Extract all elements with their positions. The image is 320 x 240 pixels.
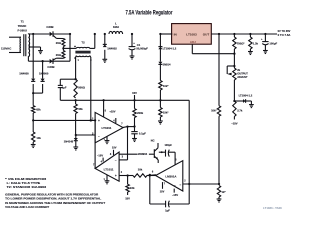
label C1 — [133, 42, 148, 50]
svg-text:8: 8 — [175, 158, 177, 161]
wire U4 output — [147, 175, 156, 177]
transformer T2 bottom winding — [76, 56, 89, 57]
svg-text:+15V: +15V — [109, 110, 115, 114]
op-amp U3 LT1011 — [95, 152, 119, 181]
label 1N914 — [163, 62, 171, 66]
wire feedback riser — [188, 100, 190, 184]
resistor 15k bias — [126, 176, 129, 196]
label 100pF — [164, 143, 172, 147]
label 1uF snubber — [62, 85, 67, 89]
wire U2 minus input — [76, 134, 95, 136]
ground 1N4148 — [73, 147, 78, 150]
ground LT1004 right — [249, 101, 254, 108]
node junction top tap — [32, 33, 34, 35]
label U4 -15V — [172, 193, 178, 197]
node T2 rail junction — [94, 33, 96, 35]
svg-text:−: − — [115, 159, 117, 163]
svg-text:0.1μF: 0.1μF — [139, 131, 146, 135]
label T2 pin 1 — [78, 59, 80, 62]
resistor 10k divider — [32, 132, 35, 142]
svg-text:LT1011: LT1011 — [102, 126, 112, 130]
transformer T2 label — [81, 40, 85, 44]
label NC — [151, 139, 155, 143]
label 1N4002 — [107, 47, 117, 51]
label 10k star — [163, 84, 169, 88]
svg-text:100μF: 100μF — [269, 42, 277, 46]
label U2 pin 1 — [103, 138, 105, 141]
label 62k — [36, 108, 41, 112]
capacitor C1 — [129, 34, 136, 56]
node 115VAC label — [1, 47, 11, 51]
wire divider to comparator — [33, 119, 95, 121]
label 10k summing — [138, 167, 143, 171]
transistor Q1 2N3904 — [154, 143, 158, 163]
wire secondary bottom tap — [28, 56, 42, 61]
svg-text:−: − — [98, 134, 100, 138]
ground 1k sense — [217, 197, 222, 202]
label 1.3k — [253, 42, 259, 46]
node chain junction — [159, 33, 161, 35]
wire U3 pin1 ground — [105, 175, 110, 184]
ground freewheel — [102, 59, 107, 62]
potentiometer 2k — [233, 66, 236, 101]
capacitor 1uF integrator — [150, 176, 189, 208]
diode 1N4000 left label — [19, 71, 29, 75]
wire ramp to U3 minus — [119, 127, 127, 160]
label 15k pullup — [78, 107, 83, 111]
node sync junction — [32, 92, 43, 94]
wire ADJ pin — [192, 44, 234, 53]
transformer T2 core — [75, 51, 90, 54]
svg-text:0 TO 7.5A: 0 TO 7.5A — [278, 33, 291, 37]
capacitor 0.1uF — [131, 127, 137, 139]
label LT1004-1.2 right — [239, 93, 253, 97]
label U3 pin 7 — [93, 163, 95, 166]
svg-text:OUT: OUT — [203, 32, 210, 36]
node reference junction — [233, 100, 235, 102]
wire T2 bottom right drop — [90, 56, 91, 121]
svg-text:1N4148: 1N4148 — [64, 139, 74, 143]
svg-text:1N4000: 1N4000 — [19, 71, 29, 75]
svg-text:6: 6 — [152, 171, 154, 174]
label 15V bias — [125, 196, 130, 200]
svg-text:15k: 15k — [78, 107, 83, 111]
wire U4 pin7 stub — [162, 182, 164, 189]
node C1 junction — [131, 33, 133, 35]
wire T2 top right to rail — [90, 34, 95, 48]
node out junction 3 — [249, 33, 251, 35]
op-amp U4 LM301A — [156, 161, 183, 191]
svg-text:L: DALE TO-5 TYPE: L: DALE TO-5 TYPE — [7, 181, 41, 185]
svg-text:8: 8 — [105, 109, 107, 112]
resistor 10k summing — [128, 174, 156, 177]
svg-text:IS MAINTAINED ACROSS THE LT108: IS MAINTAINED ACROSS THE LT1083 INDEPEND… — [5, 201, 105, 205]
svg-text:7.5A Variable Regulator: 7.5A Variable Regulator — [126, 10, 173, 17]
label 10k divider — [36, 136, 41, 140]
node U2 pin8 junction — [102, 99, 104, 101]
node junction bottom tap — [41, 60, 43, 62]
svg-text:TO LOWER POWER DISSIPATION. AB: TO LOWER POWER DISSIPATION. ABOUT 1.7V D… — [5, 197, 101, 201]
node ADJ junction — [233, 53, 235, 55]
node out junction 2 — [233, 33, 235, 35]
diode 1N4000 right label — [39, 71, 49, 75]
svg-text:10k*: 10k* — [211, 109, 217, 113]
svg-text:1N4000: 1N4000 — [39, 71, 49, 75]
SCR C20B top label — [46, 25, 53, 29]
svg-text:LT1004-1.2: LT1004-1.2 — [239, 93, 253, 97]
transformer T1 primary — [19, 37, 22, 52]
wire U3 output riser — [94, 120, 96, 168]
svg-text:0V TO 35V: 0V TO 35V — [278, 29, 291, 33]
svg-text:8: 8 — [110, 153, 112, 156]
svg-text:4: 4 — [113, 120, 115, 123]
label 100uF — [261, 38, 278, 46]
label U4 pin numbers — [152, 158, 186, 188]
svg-text:15V: 15V — [132, 91, 137, 95]
label LT1083 pins — [174, 32, 210, 44]
label +15V U2 — [109, 110, 115, 114]
svg-text:+: + — [115, 174, 117, 178]
wire out sense drop — [218, 34, 220, 106]
label U2 pin numbers — [92, 109, 115, 135]
wire 15V stub — [134, 95, 136, 100]
svg-text:ADJUST: ADJUST — [237, 75, 248, 79]
transformer T1 secondary — [28, 34, 29, 57]
label 0.1uF — [139, 131, 146, 135]
svg-text:62k: 62k — [36, 108, 41, 112]
svg-text:C20B: C20B — [46, 25, 53, 29]
wire U2 pin4 stub — [115, 118, 117, 123]
diode 1N4000 left — [31, 79, 35, 94]
node summing node — [188, 183, 190, 185]
resistor 500ohm — [74, 79, 77, 98]
svg-text:LT1011: LT1011 — [104, 167, 114, 171]
label 20ohm top — [56, 41, 62, 45]
node U3 output junction — [90, 119, 97, 121]
svg-text:10k*: 10k* — [163, 84, 169, 88]
node cap branch top — [60, 78, 76, 80]
svg-text:1k*: 1k* — [222, 190, 227, 194]
resistor 10k star — [159, 64, 162, 100]
svg-text:−15V: −15V — [97, 153, 103, 157]
diode 1N4002 freewheel — [103, 34, 107, 59]
svg-text:15k*: 15k* — [163, 110, 169, 114]
diode LT1004-1.2 right — [234, 99, 251, 103]
svg-text:T1: T1 — [21, 19, 25, 23]
svg-text:750Ω*: 750Ω* — [237, 42, 246, 46]
node Q1 junction — [161, 151, 163, 153]
resistor 750ohm — [233, 34, 236, 54]
diode LT1004-1.2 left — [158, 34, 162, 62]
wire U2 output — [123, 126, 134, 129]
ground 0.1uF — [132, 139, 137, 142]
wire SCR2 anode riser — [42, 61, 44, 78]
wire 115VAC top stub — [9, 36, 21, 38]
svg-text:T2: STANCOR 112-0903: T2: STANCOR 112-0903 — [7, 185, 47, 189]
inductor L label — [113, 22, 119, 29]
svg-text:T2: T2 — [81, 40, 85, 44]
svg-text:200k: 200k — [137, 111, 143, 115]
wire top-end drop — [32, 34, 34, 79]
svg-text:* 1% FILM RESISTOR: * 1% FILM RESISTOR — [5, 177, 46, 181]
resistor 200k — [133, 100, 136, 126]
label U3 pin 1 — [103, 178, 105, 181]
wire rail into IN — [160, 33, 172, 35]
node 15V junction — [133, 99, 135, 101]
ground 10k — [31, 142, 36, 148]
transformer T2 top winding — [76, 47, 89, 48]
svg-text:10k: 10k — [138, 167, 143, 171]
label 1k sense — [222, 190, 227, 194]
wire secondary center tap — [28, 47, 40, 51]
svg-text:500Ω: 500Ω — [78, 85, 85, 89]
svg-text:+: + — [98, 119, 100, 123]
node U3 plus junction — [126, 174, 128, 176]
svg-text:1N914: 1N914 — [163, 62, 171, 66]
node T2 drive junction — [90, 119, 92, 121]
svg-text:1.3k: 1.3k — [253, 42, 259, 46]
svg-text:50,000μF: 50,000μF — [136, 47, 148, 51]
resistor 20ohm bottom — [56, 51, 65, 59]
wire Q1 base — [119, 153, 154, 155]
svg-text:1N4002: 1N4002 — [107, 47, 117, 51]
node pot top junction — [233, 65, 235, 67]
svg-text:1μF: 1μF — [165, 208, 170, 212]
inductor L — [109, 31, 123, 34]
pot wiper — [227, 66, 234, 75]
svg-text:+: + — [133, 42, 135, 45]
resistor 1k sense — [217, 186, 220, 198]
svg-text:GENERAL PURPOSE REGULATOR WITH: GENERAL PURPOSE REGULATOR WITH SCR PRERE… — [5, 192, 98, 196]
svg-text:NC: NC — [151, 139, 155, 143]
node U2 output junction — [126, 125, 128, 127]
op-amp U2 LT1011 — [95, 112, 123, 142]
wire ADJ node to pot — [233, 54, 235, 66]
node out junction 4 — [264, 33, 266, 35]
note resistors — [5, 177, 47, 189]
node freewheel junction — [104, 33, 106, 35]
SCR C20B top — [50, 31, 57, 38]
label 20ohm bottom — [56, 53, 62, 57]
node ramp junction — [133, 125, 135, 127]
svg-text:−: − — [180, 183, 182, 187]
svg-text:1MH: 1MH — [113, 25, 119, 29]
label 1N4148 — [64, 139, 74, 143]
node cap branch bottom — [74, 99, 76, 101]
node clamp junction — [75, 134, 77, 136]
label -15V U3 — [97, 153, 103, 157]
svg-text:−15V: −15V — [231, 121, 238, 125]
transformer T1 label — [18, 19, 27, 32]
ground center tap — [38, 51, 43, 54]
svg-text:1μF: 1μF — [62, 85, 67, 89]
resistor 62k — [32, 93, 35, 113]
svg-text:OUTPUT: OUTPUT — [237, 71, 248, 75]
capacitor 100pF — [159, 150, 175, 165]
resistor 15k star — [159, 100, 162, 119]
label 750ohm — [237, 42, 246, 46]
svg-text:15V: 15V — [112, 146, 117, 150]
ground 100uF — [263, 51, 268, 54]
svg-text:2k: 2k — [237, 68, 240, 72]
svg-text:15V: 15V — [160, 190, 165, 194]
ground C1 — [130, 56, 135, 59]
svg-text:LM301A: LM301A — [165, 174, 177, 178]
capacitor 1uF snubber — [58, 79, 63, 100]
label output — [278, 29, 291, 37]
svg-text:LT1004-1.2: LT1004-1.2 — [163, 47, 177, 51]
node rail-chain junction — [159, 99, 161, 101]
regulator U1 LT1083 box — [172, 24, 212, 45]
label 15V U3 — [112, 146, 117, 150]
ground 1.3k — [248, 52, 253, 55]
diode 1N4000 right — [41, 79, 45, 94]
svg-text:C20B: C20B — [47, 65, 54, 69]
label 15k bias — [130, 186, 135, 190]
diode 1N914 — [158, 62, 162, 65]
svg-text:3: 3 — [122, 155, 124, 158]
wire U4 pin4 stub — [173, 189, 175, 193]
node SCR1 cathode junction — [69, 33, 71, 35]
diode 1N4148 — [74, 135, 78, 147]
wire U3 pin8 stub — [113, 150, 115, 155]
svg-text:15V: 15V — [125, 196, 130, 200]
node gate junction — [62, 47, 64, 51]
wire SCR1 cathode to node — [53, 33, 70, 35]
wire U2 pin8 — [103, 101, 105, 117]
label 2N3904 — [138, 152, 149, 156]
svg-text:ADJ: ADJ — [190, 40, 196, 44]
label LT1004-1.2 left — [163, 47, 177, 51]
label 15k star — [163, 110, 169, 114]
capacitor 100uF — [262, 34, 268, 51]
svg-text:1: 1 — [78, 59, 80, 62]
ground 15k star — [158, 120, 163, 125]
wire 115VAC bottom stub — [9, 52, 21, 54]
note general — [5, 192, 105, 209]
SCR C20B bottom — [43, 58, 57, 64]
title — [126, 10, 173, 17]
wire sense to amp — [189, 183, 219, 185]
svg-text:15k: 15k — [130, 186, 135, 190]
svg-text:+: + — [261, 38, 263, 41]
wire secondary top tap to rail — [28, 33, 49, 35]
label 15V supply — [132, 91, 137, 95]
svg-text:2: 2 — [121, 171, 123, 174]
label 1uF integrator — [165, 208, 170, 212]
svg-text:10k: 10k — [36, 136, 41, 140]
label U3 pin numbers — [101, 153, 124, 174]
transformer T1 core — [24, 34, 26, 56]
svg-text:2.7k: 2.7k — [237, 108, 243, 112]
svg-text:VOLTAGE AND LOAD CURRENT: VOLTAGE AND LOAD CURRENT — [5, 205, 49, 209]
svg-text:100pF: 100pF — [164, 143, 172, 147]
wire U3 pin4 stub — [102, 158, 104, 162]
svg-text:F-260U: F-260U — [18, 29, 27, 33]
node divider junction — [32, 113, 34, 132]
wire 15V rail — [60, 99, 189, 101]
node T2 phase dot top — [74, 46, 76, 48]
label U4 15V — [160, 190, 165, 194]
label U2 pin 7 — [121, 123, 123, 126]
svg-text:7: 7 — [164, 182, 166, 185]
wire U4 minus input — [183, 183, 219, 185]
svg-text:115VAC: 115VAC — [1, 47, 11, 51]
node T2 phase dot bottom — [74, 57, 76, 59]
svg-text:7: 7 — [121, 123, 123, 126]
label 500ohm — [78, 85, 85, 89]
label 200k — [137, 111, 143, 115]
wire U2 pin1 ground — [105, 136, 110, 143]
node sense junction — [218, 183, 220, 185]
label -15V — [231, 121, 238, 125]
resistor 2.7k — [233, 101, 236, 120]
resistor 20ohm top — [56, 38, 65, 46]
wire gate node to T2 — [63, 47, 76, 49]
wire SCR2 cathode return — [52, 34, 70, 61]
node summing junction — [149, 174, 151, 176]
SCR C20B bottom label — [47, 65, 54, 69]
svg-text:20Ω: 20Ω — [56, 41, 62, 45]
svg-text:2N3904: 2N3904 — [138, 152, 148, 156]
wire OUT rail — [211, 33, 277, 35]
tag — [263, 207, 282, 210]
label 2.7k — [237, 108, 243, 112]
svg-text:−15V: −15V — [172, 193, 178, 197]
wire T2 bottom left drop — [75, 56, 78, 80]
svg-text:C1: C1 — [137, 43, 141, 47]
node out junction 1 — [218, 33, 220, 35]
resistor 1.3k — [249, 34, 252, 52]
label 2k OUTPUT ADJUST — [237, 68, 248, 79]
svg-text:2: 2 — [184, 179, 186, 182]
resistor 15k pullup — [74, 100, 77, 135]
svg-text:20Ω: 20Ω — [56, 53, 62, 57]
node U4 output junction — [149, 174, 151, 176]
wire U3 plus stub — [119, 175, 128, 177]
resistor 10k sense — [217, 106, 220, 184]
label 10k sense — [211, 109, 217, 113]
svg-text:TRIAD: TRIAD — [18, 24, 27, 28]
svg-text:LT1083 • TA08: LT1083 • TA08 — [263, 207, 282, 210]
svg-text:LT1083: LT1083 — [186, 32, 197, 36]
label T2 pin 3 — [90, 59, 92, 62]
